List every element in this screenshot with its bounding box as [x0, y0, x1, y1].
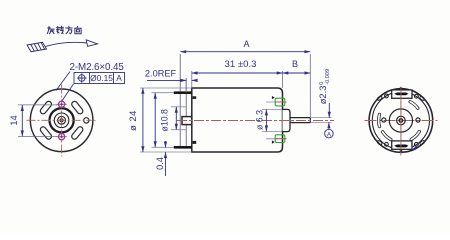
- svg-text:ø2.3: ø2.3: [317, 86, 328, 105]
- svg-text:-0.009: -0.009: [325, 69, 331, 85]
- svg-text:A: A: [116, 73, 122, 83]
- svg-text:A: A: [327, 131, 332, 138]
- svg-text:0.4: 0.4: [155, 157, 165, 170]
- svg-text:31 ±0.3: 31 ±0.3: [225, 59, 257, 70]
- svg-text:ø 24: ø 24: [128, 110, 139, 131]
- svg-text:2.0REF: 2.0REF: [145, 69, 177, 79]
- svg-text:ø 6.3: ø 6.3: [255, 110, 265, 130]
- svg-text:ø10.8: ø10.8: [159, 109, 169, 132]
- svg-text:A: A: [243, 39, 249, 49]
- svg-text:2-M2.6×0.45: 2-M2.6×0.45: [70, 62, 125, 73]
- svg-text:B: B: [292, 59, 298, 69]
- svg-text:14: 14: [9, 115, 19, 125]
- svg-text:Ø0.15: Ø0.15: [90, 73, 113, 83]
